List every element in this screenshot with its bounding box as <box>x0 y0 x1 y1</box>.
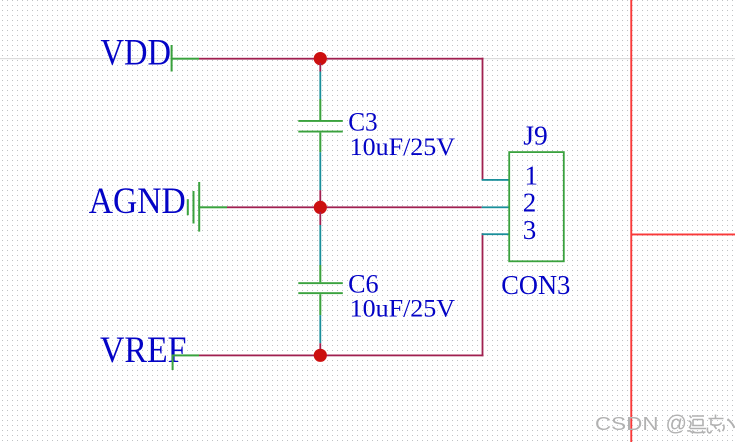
sheet border vertical line <box>630 0 632 442</box>
wire AGND horizontal <box>227 206 482 208</box>
capacitor C3 <box>298 99 343 152</box>
sheet border horizontal line <box>631 234 735 236</box>
svg-text:1: 1 <box>525 160 539 190</box>
connector J9 body <box>509 152 564 261</box>
capacitor C6 <box>298 265 343 315</box>
wire VREF horizontal <box>199 355 484 357</box>
wire VDD horizontal <box>199 58 484 60</box>
wire junction to C6 (teal) <box>319 225 321 265</box>
svg-text:@: @ <box>666 411 688 436</box>
wire VDD right riser <box>482 58 484 181</box>
wire C6 to VREF junction (red stub) <box>319 343 321 351</box>
wire junction to C3 (red stub) <box>319 63 321 72</box>
power port VREF pin bar <box>172 355 174 371</box>
wire junction to C3 (teal) <box>319 72 321 100</box>
power port VDD stub <box>172 58 200 60</box>
svg-text:VDD: VDD <box>101 31 172 72</box>
power port VDD pin bar <box>171 45 173 72</box>
svg-text:CSDN: CSDN <box>595 413 659 434</box>
wire VREF right riser <box>482 233 484 356</box>
svg-text:3: 3 <box>523 215 537 245</box>
svg-text:J9: J9 <box>523 121 548 151</box>
wire junction to C6 (red stub) <box>319 212 321 225</box>
svg-text:2: 2 <box>523 188 537 218</box>
junction dot VDD/C3 <box>314 52 327 65</box>
pin 3 stub (teal) <box>482 233 510 235</box>
pin 2 stub (teal) <box>482 206 510 208</box>
pin 1 stub (teal) <box>482 179 510 181</box>
svg-text:10uF/25V: 10uF/25V <box>350 132 456 161</box>
watermark CSDN @遗忘、 <box>595 411 735 436</box>
junction dot VREF/C6 <box>314 349 327 362</box>
ground symbol AGND <box>187 182 227 232</box>
svg-text:AGND: AGND <box>89 180 186 221</box>
wire C3 to AGND junction (red stub) <box>319 190 321 202</box>
power port VREF stub <box>173 354 200 356</box>
wire C6 to VREF junction (teal) <box>319 315 321 343</box>
grid guide line (faint) <box>0 58 735 59</box>
junction dot AGND/C6 <box>314 201 327 214</box>
svg-text:10uF/25V: 10uF/25V <box>350 293 456 322</box>
wire C3 to AGND junction (teal) <box>319 152 321 190</box>
svg-text:CON3: CON3 <box>501 270 570 300</box>
